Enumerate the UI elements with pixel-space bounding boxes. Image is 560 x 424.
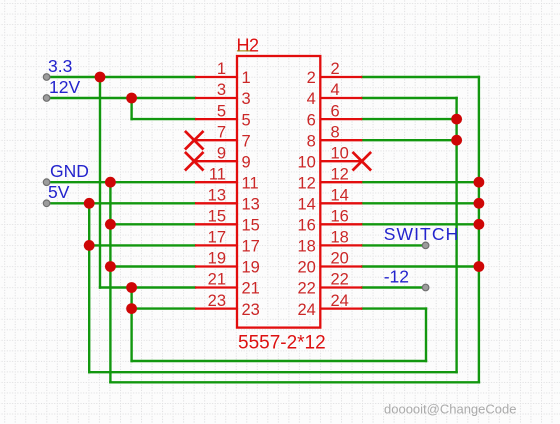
svg-text:16: 16 bbox=[331, 208, 349, 226]
svg-text:15: 15 bbox=[208, 208, 226, 226]
svg-text:21: 21 bbox=[242, 280, 260, 298]
svg-text:17: 17 bbox=[242, 238, 260, 256]
svg-text:24: 24 bbox=[297, 301, 315, 319]
svg-text:11: 11 bbox=[242, 174, 259, 192]
svg-text:1: 1 bbox=[217, 60, 226, 78]
svg-text:SWITCH: SWITCH bbox=[384, 224, 460, 244]
svg-text:15: 15 bbox=[242, 217, 260, 235]
svg-text:16: 16 bbox=[297, 217, 315, 235]
svg-text:24: 24 bbox=[331, 292, 349, 310]
svg-text:4: 4 bbox=[331, 81, 340, 99]
svg-text:12: 12 bbox=[331, 165, 349, 183]
svg-text:12V: 12V bbox=[49, 77, 80, 97]
svg-text:14: 14 bbox=[331, 187, 349, 205]
svg-text:5: 5 bbox=[217, 102, 226, 120]
svg-text:H2: H2 bbox=[237, 35, 259, 55]
svg-text:9: 9 bbox=[242, 153, 251, 171]
svg-text:8: 8 bbox=[307, 132, 316, 150]
svg-text:12: 12 bbox=[297, 174, 315, 192]
svg-text:14: 14 bbox=[297, 196, 315, 214]
svg-text:13: 13 bbox=[242, 196, 260, 214]
svg-text:17: 17 bbox=[208, 229, 226, 247]
svg-text:19: 19 bbox=[208, 250, 226, 268]
svg-text:-12: -12 bbox=[384, 266, 409, 286]
svg-text:19: 19 bbox=[242, 259, 260, 277]
svg-text:23: 23 bbox=[208, 292, 226, 310]
svg-text:6: 6 bbox=[307, 111, 316, 129]
svg-text:7: 7 bbox=[217, 123, 226, 141]
svg-text:3: 3 bbox=[242, 90, 251, 108]
svg-text:3.3: 3.3 bbox=[48, 56, 72, 76]
svg-text:22: 22 bbox=[331, 271, 349, 289]
svg-text:1: 1 bbox=[242, 69, 251, 87]
svg-text:20: 20 bbox=[297, 259, 315, 277]
svg-text:21: 21 bbox=[208, 271, 226, 289]
svg-text:10: 10 bbox=[331, 144, 349, 162]
svg-text:7: 7 bbox=[242, 132, 251, 150]
svg-text:13: 13 bbox=[208, 187, 226, 205]
svg-text:GND: GND bbox=[50, 161, 89, 181]
svg-text:5V: 5V bbox=[48, 182, 70, 202]
svg-text:8: 8 bbox=[331, 123, 340, 141]
svg-text:2: 2 bbox=[331, 60, 340, 78]
svg-text:5: 5 bbox=[242, 111, 251, 129]
svg-text:23: 23 bbox=[242, 301, 260, 319]
svg-text:18: 18 bbox=[331, 229, 349, 247]
svg-text:5557-2*12: 5557-2*12 bbox=[238, 332, 326, 353]
svg-text:22: 22 bbox=[297, 280, 315, 298]
svg-text:3: 3 bbox=[217, 81, 226, 99]
svg-text:4: 4 bbox=[307, 90, 316, 108]
svg-text:6: 6 bbox=[331, 102, 340, 120]
svg-text:dooooit@ChangeCode: dooooit@ChangeCode bbox=[384, 402, 516, 417]
svg-text:20: 20 bbox=[331, 250, 349, 268]
svg-text:10: 10 bbox=[297, 153, 315, 171]
svg-text:11: 11 bbox=[209, 165, 226, 183]
svg-text:9: 9 bbox=[217, 144, 226, 162]
svg-text:18: 18 bbox=[297, 238, 315, 256]
svg-text:2: 2 bbox=[307, 69, 316, 87]
